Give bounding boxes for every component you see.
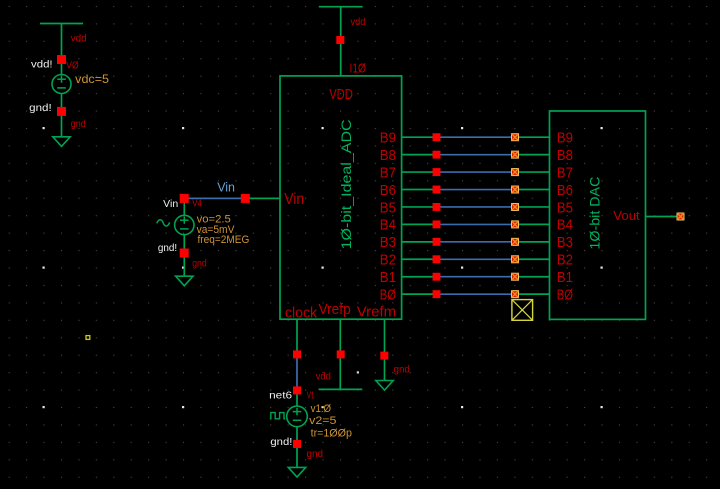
svg-text:gnd: gnd — [307, 449, 324, 460]
svg-text:vdc=5: vdc=5 — [75, 72, 109, 86]
svg-text:gnd!: gnd! — [158, 243, 177, 254]
svg-text:V4: V4 — [192, 199, 202, 210]
svg-text:1Ø-bit_Ideal_ADC: 1Ø-bit_Ideal_ADC — [338, 119, 354, 249]
svg-text:B3: B3 — [380, 235, 396, 251]
svg-text:B8: B8 — [557, 148, 573, 164]
svg-text:B9: B9 — [380, 131, 396, 147]
svg-text:vdd: vdd — [351, 17, 366, 28]
svg-text:B6: B6 — [380, 183, 396, 199]
svg-text:gnd: gnd — [71, 119, 86, 130]
svg-text:net6: net6 — [269, 391, 293, 402]
svg-text:BØ: BØ — [380, 287, 396, 303]
svg-text:v2=5: v2=5 — [309, 415, 336, 427]
svg-text:Vout: Vout — [613, 208, 640, 223]
svg-text:Vrefp: Vrefp — [319, 301, 351, 318]
svg-text:Vrefm: Vrefm — [357, 303, 396, 320]
svg-text:B2: B2 — [380, 253, 396, 269]
svg-text:I1Ø: I1Ø — [350, 61, 367, 76]
svg-text:B5: B5 — [380, 200, 396, 216]
svg-text:gnd: gnd — [192, 258, 207, 269]
svg-text:clock: clock — [285, 305, 317, 322]
svg-text:B8: B8 — [380, 148, 396, 164]
svg-text:B1: B1 — [557, 270, 573, 286]
svg-text:gnd!: gnd! — [270, 437, 292, 448]
svg-text:Vin: Vin — [217, 180, 235, 195]
svg-text:1Ø-bit DAC: 1Ø-bit DAC — [587, 177, 603, 250]
svg-text:B9: B9 — [557, 131, 573, 147]
svg-text:vdd!: vdd! — [31, 59, 53, 70]
svg-text:B1: B1 — [380, 270, 396, 286]
svg-text:B2: B2 — [557, 253, 573, 269]
svg-text:B4: B4 — [380, 218, 396, 234]
svg-text:B6: B6 — [557, 183, 573, 199]
svg-text:v1:Ø: v1:Ø — [311, 403, 332, 415]
svg-text:VØ: VØ — [66, 61, 79, 72]
svg-text:VDD: VDD — [329, 86, 353, 103]
svg-text:gnd: gnd — [394, 364, 410, 375]
svg-text:B4: B4 — [557, 218, 573, 234]
svg-text:gnd!: gnd! — [29, 103, 51, 114]
svg-text:Vin: Vin — [163, 199, 178, 210]
svg-text:B7: B7 — [380, 165, 396, 181]
svg-text:B5: B5 — [557, 200, 573, 216]
svg-text:Vin: Vin — [284, 191, 304, 208]
svg-text:vdd: vdd — [71, 34, 87, 45]
svg-text:vdd: vdd — [316, 371, 331, 382]
svg-text:B3: B3 — [557, 235, 573, 251]
svg-text:tr=1ØØp: tr=1ØØp — [311, 427, 352, 439]
svg-text:BØ: BØ — [557, 287, 573, 303]
svg-text:B7: B7 — [557, 165, 573, 181]
svg-text:V1: V1 — [307, 391, 315, 402]
svg-text:freq=2MEG: freq=2MEG — [198, 234, 250, 246]
